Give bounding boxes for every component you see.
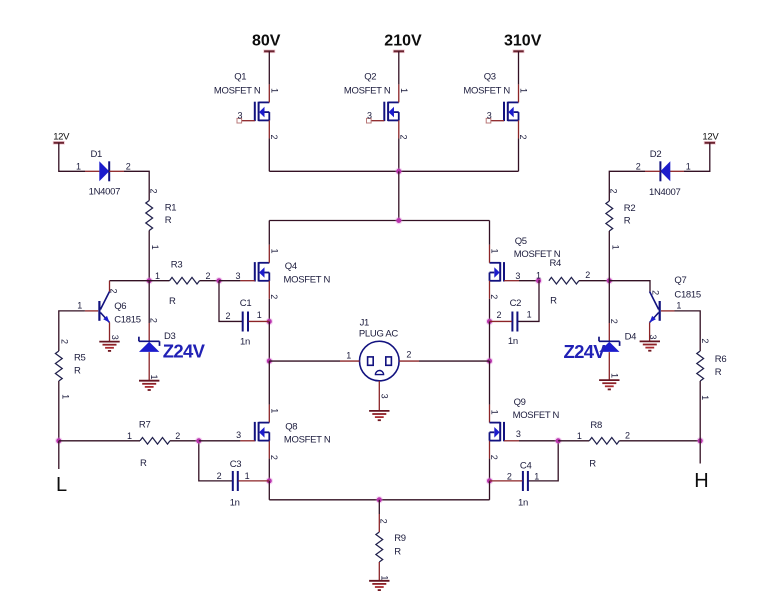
svg-text:R: R (74, 365, 81, 376)
R5 zigzag body (55, 351, 62, 381)
C3 pin lead (238, 480, 269, 482)
svg-text:1: 1 (534, 471, 539, 481)
Q9 symbol (503, 422, 505, 441)
transistor Q7 C1815 (648, 275, 701, 341)
R3 zigzag body (170, 277, 200, 284)
junction bottom rail center (R9) (376, 496, 383, 503)
J1 ground slot arc (375, 370, 383, 374)
Q3 pin 3 lead and pad (491, 120, 504, 122)
C2 connecting wire (518, 281, 539, 322)
svg-text:1: 1 (686, 162, 691, 172)
wire R2 to node D (608, 231, 610, 281)
svg-text:1n: 1n (240, 337, 250, 348)
svg-text:Q7: Q7 (674, 275, 686, 286)
junction node A (R1/R3/Q6/D3) (146, 277, 153, 284)
wire left rail top (to Q4 drain) (268, 221, 270, 263)
power port 12V right (702, 132, 719, 143)
wire R8 to node H (619, 440, 700, 442)
capacitor C4 1n (490, 441, 559, 509)
D3 zener symbol (139, 340, 160, 342)
svg-text:Q5: Q5 (515, 236, 527, 247)
svg-text:3: 3 (487, 110, 492, 120)
D4 pin 1 lead (608, 352, 610, 380)
svg-text:1: 1 (77, 300, 82, 310)
connector J1 PLUG AC (269, 317, 489, 411)
Q3 pin 2 lead (518, 120, 520, 138)
svg-text:2: 2 (507, 471, 512, 481)
power port 12V left (53, 132, 70, 143)
junction node F (R8/C4/Q9 gate) (555, 437, 562, 444)
diode D2 1N4007 (636, 149, 691, 198)
svg-text:3: 3 (367, 110, 372, 120)
svg-text:1: 1 (490, 248, 500, 253)
wire left rail C1 to J1 node (268, 321, 270, 361)
C3 plates (232, 471, 234, 491)
Q6 symbol (98, 301, 100, 321)
Q2 pin 2 lead (398, 120, 400, 138)
junction node B (R3/C1/Q4 gate) (215, 277, 222, 284)
capacitor C1 1n (219, 281, 269, 348)
resistor R6 (697, 338, 727, 400)
wire node B to Q4 gate (219, 280, 240, 282)
svg-text:3: 3 (515, 271, 520, 281)
svg-text:Q8: Q8 (285, 421, 297, 432)
transistor Q2 MOSFET N (344, 71, 409, 139)
wire Q6 base to R5 column (59, 311, 85, 351)
svg-text:1: 1 (270, 248, 280, 253)
svg-text:Z24V: Z24V (564, 341, 607, 362)
Q1 pin 3 lead and pad (242, 120, 255, 122)
svg-text:3: 3 (648, 334, 658, 339)
J1 right slot (386, 357, 392, 365)
Q9 pin 3 lead (504, 440, 519, 442)
wire R6 to node H (699, 381, 701, 441)
svg-text:MOSFET N: MOSFET N (463, 85, 510, 96)
svg-text:1: 1 (150, 245, 160, 250)
Q4 symbol (254, 262, 256, 281)
wire node L stub (58, 441, 60, 469)
svg-text:2: 2 (217, 471, 222, 481)
J1 socket circle (360, 341, 400, 381)
D2 pin leads and symbol (670, 170, 684, 172)
R4 zigzag body (549, 277, 579, 284)
svg-text:R6: R6 (715, 354, 727, 365)
svg-text:3: 3 (110, 335, 120, 340)
svg-text:1: 1 (257, 310, 262, 320)
svg-text:2: 2 (489, 455, 499, 460)
ground R9 (369, 581, 389, 590)
svg-text:MOSFET N: MOSFET N (284, 275, 331, 286)
svg-text:1: 1 (527, 310, 532, 320)
wire left rail bottom (268, 481, 270, 500)
svg-text:D2: D2 (650, 149, 662, 160)
svg-text:2: 2 (126, 162, 131, 172)
C4 plates (522, 471, 524, 491)
svg-text:Q9: Q9 (514, 397, 526, 408)
svg-text:R8: R8 (590, 420, 602, 431)
J1 left slot (368, 357, 374, 365)
wire node F to R8 (558, 440, 589, 442)
diode D1 1N4007 (76, 149, 131, 198)
svg-text:1: 1 (155, 271, 160, 281)
svg-text:1: 1 (610, 245, 620, 250)
R6 zigzag body (697, 351, 704, 381)
svg-text:3: 3 (235, 271, 240, 281)
svg-text:R: R (550, 296, 557, 307)
svg-text:2: 2 (379, 519, 389, 524)
svg-text:R9: R9 (394, 533, 406, 544)
Q6 pin 3 emitter lead (109, 323, 111, 342)
wire R1 to node A (148, 231, 150, 281)
wire bus to H-bridge top (398, 171, 400, 220)
svg-text:1N4007: 1N4007 (89, 187, 120, 198)
C3 connecting wire (199, 441, 233, 481)
wire right rail J1 to Q9 drain (489, 361, 491, 423)
svg-text:2: 2 (149, 318, 159, 323)
transistor Q8 MOSFET N (236, 408, 331, 460)
svg-text:2: 2 (518, 134, 528, 139)
C1 pin lead (249, 320, 270, 322)
wire Q9 gate to node F (519, 440, 558, 442)
R9 pin 1 lead (378, 562, 380, 581)
svg-text:C1815: C1815 (674, 290, 701, 301)
transistor Q9 MOSFET N (489, 397, 559, 460)
transistor Q3 MOSFET N (463, 71, 528, 139)
transistor Q4 MOSFET N (235, 248, 330, 299)
wire node A to R3 (149, 280, 169, 282)
Q1 pin 2 lead (268, 120, 270, 138)
svg-text:MOSFET N: MOSFET N (214, 85, 261, 96)
wire Q2 source to bus (398, 138, 400, 171)
wire R3 to node B (200, 280, 220, 282)
svg-text:2: 2 (109, 288, 119, 293)
resistor R1 (146, 188, 176, 249)
wire left rail J1 to Q8 drain (268, 361, 270, 423)
wire node E to Q8 gate (199, 440, 241, 442)
svg-text:R: R (624, 216, 631, 227)
J1 pin 1 lead (340, 360, 360, 362)
C4 pin lead (490, 480, 523, 482)
svg-text:R2: R2 (624, 203, 636, 214)
svg-text:1n: 1n (230, 498, 240, 509)
svg-text:3: 3 (236, 430, 241, 440)
transistor Q1 MOSFET N (214, 71, 280, 139)
svg-text:2: 2 (149, 188, 159, 193)
wire Q6 collector to node A (110, 280, 150, 282)
J1 pin 3 lead (378, 381, 380, 411)
Q2 pin 3 lead and pad (371, 120, 384, 122)
svg-text:1: 1 (577, 431, 582, 441)
svg-text:1: 1 (399, 88, 409, 93)
wire Q5 gate to node C (519, 280, 539, 282)
svg-text:Q6: Q6 (114, 301, 126, 312)
svg-text:C3: C3 (230, 459, 242, 470)
svg-text:MOSFET N: MOSFET N (344, 85, 391, 96)
svg-text:2: 2 (269, 134, 279, 139)
D1 pin leads and symbol (85, 170, 99, 172)
svg-text:1: 1 (676, 301, 681, 311)
junction J1 left node (266, 357, 273, 364)
C2 plates (511, 312, 513, 332)
svg-text:80V: 80V (252, 32, 281, 49)
svg-text:Q1: Q1 (234, 71, 246, 82)
svg-text:1: 1 (700, 395, 710, 400)
svg-text:R3: R3 (171, 260, 183, 271)
junction C2 node (486, 318, 493, 325)
svg-text:1: 1 (270, 408, 280, 413)
wire 310V stem (518, 51, 520, 84)
C1 plates (242, 312, 244, 332)
wire R7 to node E (170, 440, 199, 442)
svg-text:2: 2 (489, 294, 499, 299)
svg-text:2: 2 (609, 319, 619, 324)
svg-text:MOSFET N: MOSFET N (513, 410, 560, 421)
svg-text:1: 1 (610, 373, 620, 378)
svg-text:210V: 210V (384, 32, 422, 49)
ground J1 (369, 411, 389, 420)
capacitor C3 1n (199, 441, 269, 509)
svg-text:MOSFET N: MOSFET N (284, 435, 331, 446)
wire node A to D3 (148, 281, 150, 342)
resistor R5 (55, 339, 85, 399)
svg-text:L: L (56, 474, 67, 496)
svg-text:1: 1 (149, 374, 159, 379)
R7 zigzag body (140, 438, 170, 445)
svg-text:2: 2 (496, 310, 501, 320)
svg-text:R: R (394, 546, 401, 557)
svg-text:R: R (140, 458, 147, 469)
junction C4 node (486, 477, 493, 484)
svg-text:R: R (589, 459, 596, 470)
svg-text:2: 2 (609, 188, 619, 193)
svg-text:R5: R5 (74, 353, 86, 364)
wire D2 to R2 (609, 171, 645, 201)
R8 zigzag body (589, 438, 619, 445)
svg-text:H: H (694, 470, 708, 492)
svg-text:2: 2 (406, 349, 411, 359)
svg-text:2: 2 (175, 431, 180, 441)
svg-text:C4: C4 (520, 460, 532, 471)
svg-text:C2: C2 (510, 298, 522, 309)
junction node H (697, 437, 704, 444)
Q3 symbol (503, 102, 505, 121)
R1 zigzag body (146, 201, 153, 231)
J1 pin 2 lead (399, 360, 419, 362)
svg-text:Q2: Q2 (364, 71, 376, 82)
svg-text:R: R (169, 296, 176, 307)
svg-text:1: 1 (380, 575, 390, 580)
svg-text:R: R (715, 367, 722, 378)
svg-text:J1: J1 (360, 317, 369, 328)
svg-text:1: 1 (61, 394, 71, 399)
C2 pin lead (490, 320, 512, 322)
wire 12V left stem (59, 143, 85, 172)
svg-text:2: 2 (636, 162, 641, 172)
wire Q5 source to C2 node (489, 281, 491, 322)
wire bottom rail to R9 (378, 500, 380, 532)
svg-text:Z24V: Z24V (163, 341, 206, 362)
svg-text:C1: C1 (240, 298, 252, 309)
svg-text:1: 1 (245, 471, 250, 481)
Q8 pin 3 lead (240, 440, 254, 442)
power port 210V (384, 32, 422, 51)
Q1 symbol (254, 102, 256, 121)
R9 zigzag body (376, 532, 383, 562)
junction node D (R2/R4/Q7/D4) (606, 277, 613, 284)
wire Q4 source to C1 node (268, 281, 270, 322)
resistor R3 (155, 260, 211, 308)
Q1 pin 1 lead (268, 84, 270, 102)
Q8 symbol (254, 422, 256, 441)
resistor R4 (536, 258, 590, 306)
svg-text:Q4: Q4 (285, 261, 297, 272)
wire Q3 source to bus (518, 138, 520, 171)
wire 210V stem (398, 51, 400, 84)
svg-text:2: 2 (625, 431, 630, 441)
Q7 pin 1 base lead (661, 310, 675, 312)
svg-text:1: 1 (490, 410, 500, 415)
ground Q6 emitter (99, 342, 119, 351)
R2 zigzag body (606, 201, 613, 231)
D4 zener symbol (599, 340, 620, 342)
svg-text:3: 3 (516, 429, 521, 439)
svg-text:2: 2 (269, 294, 279, 299)
junction C1 node (266, 318, 273, 325)
svg-text:2: 2 (205, 271, 210, 281)
svg-text:2: 2 (225, 311, 230, 321)
wire H-bridge top rail (269, 220, 489, 222)
svg-text:R1: R1 (165, 202, 177, 213)
svg-text:2: 2 (60, 339, 70, 344)
svg-text:2: 2 (650, 290, 660, 295)
svg-text:2: 2 (585, 270, 590, 280)
junction top rail center (395, 217, 402, 224)
C4 connecting wire (528, 441, 558, 481)
wire Q1 source to bus (268, 138, 270, 171)
Q7 pin 3 emitter lead (649, 323, 651, 342)
transistor Q5 MOSFET N (489, 236, 561, 299)
wire Q9 source to C4 node (489, 441, 491, 481)
junction bus node (395, 168, 402, 175)
wire node D to Q7 collector (609, 281, 650, 292)
svg-text:310V: 310V (504, 32, 542, 49)
transistor Q6 C1815 (77, 281, 141, 342)
ground Q7 emitter (640, 341, 660, 350)
junction node E (R7/C3/Q8 gate) (195, 437, 202, 444)
wire Q8 source to C3 node (268, 441, 270, 481)
wire right rail top (to Q5 drain) (489, 221, 491, 263)
zener diode D3 Z24V (139, 318, 176, 381)
wire 12V right stem (684, 143, 710, 172)
junction node L (55, 437, 62, 444)
D3 pin 1 lead (148, 352, 150, 380)
svg-text:1: 1 (519, 88, 529, 93)
wire Q7 base to R6 (675, 311, 701, 351)
Q3 pin 1 lead (518, 84, 520, 102)
svg-text:2: 2 (399, 134, 409, 139)
wire D1 to R1 (124, 171, 149, 200)
wire R5 to node L (58, 381, 60, 441)
junction node C (R4/C2/Q5 gate) (535, 277, 542, 284)
zener diode D4 Z24V (599, 319, 636, 380)
svg-text:R4: R4 (550, 258, 562, 269)
Q6 pin 1 base lead (85, 310, 98, 312)
Q4 pin 3 lead (240, 280, 254, 282)
svg-text:1: 1 (270, 88, 280, 93)
Q2 symbol (383, 102, 385, 121)
svg-text:1n: 1n (508, 336, 518, 347)
power port 80V (252, 32, 281, 51)
wire node L to R7 (59, 440, 140, 442)
svg-text:D1: D1 (91, 149, 103, 160)
wire 80V stem (268, 51, 270, 84)
capacitor C2 1n (490, 281, 540, 348)
resistor R8 (577, 420, 630, 470)
resistor R9 (376, 519, 406, 581)
svg-text:1: 1 (536, 271, 541, 281)
svg-text:R7: R7 (139, 419, 151, 430)
svg-text:3: 3 (237, 110, 242, 120)
wire node D to D4 (608, 281, 610, 342)
Q5 symbol (503, 262, 505, 281)
resistor R2 (606, 188, 635, 249)
svg-text:PLUG AC: PLUG AC (359, 328, 399, 339)
junction J1 right node (486, 357, 493, 364)
ground D3 (139, 381, 159, 390)
C1 connecting wire (219, 281, 242, 322)
svg-text:1N4007: 1N4007 (649, 187, 680, 198)
svg-text:1n: 1n (518, 498, 528, 509)
wire right rail bottom (489, 481, 491, 500)
svg-text:R: R (165, 215, 172, 226)
Q5 pin 3 lead (504, 280, 519, 282)
Q2 pin 1 lead (398, 84, 400, 102)
wire H-bridge bottom rail (269, 499, 489, 501)
junction C3 node (266, 477, 273, 484)
wire node H stub (699, 441, 701, 464)
svg-text:Q3: Q3 (484, 71, 496, 82)
wire source bus (269, 170, 518, 172)
svg-text:1: 1 (127, 431, 132, 441)
Q6 pin 2 collector lead (109, 281, 111, 292)
svg-text:1: 1 (76, 162, 81, 172)
svg-text:2: 2 (700, 338, 710, 343)
ground D4 (599, 380, 619, 389)
power port 310V (504, 32, 542, 51)
resistor R7 (127, 419, 180, 469)
svg-text:C1815: C1815 (114, 315, 141, 326)
Q7 symbol (659, 301, 661, 321)
svg-text:2: 2 (269, 455, 279, 460)
svg-text:3: 3 (379, 394, 389, 399)
svg-text:1: 1 (346, 350, 351, 360)
svg-text:D4: D4 (625, 332, 637, 343)
wire R4 to node D (579, 280, 609, 282)
wire right rail C2 to J1 node (489, 321, 491, 361)
